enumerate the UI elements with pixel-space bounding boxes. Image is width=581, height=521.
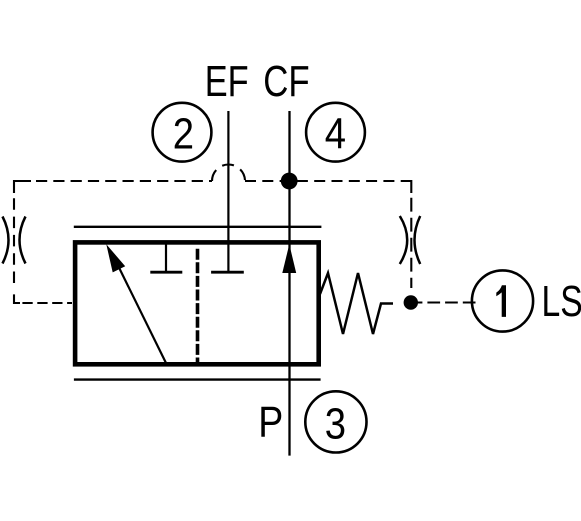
port label EF [205, 58, 249, 106]
svg-text:LS: LS [542, 278, 581, 326]
line crossing hop (dashed arc) [212, 165, 245, 182]
svg-text:4: 4 [325, 109, 346, 158]
pilot line left vertical (dashed) [13, 198, 15, 289]
orifice left [3, 217, 26, 264]
wire CF line [288, 111, 290, 456]
infinite positioning line top [74, 226, 322, 228]
infinite positioning line bottom [74, 378, 321, 380]
CF flow arrowhead [282, 244, 296, 273]
EF plug bar [211, 271, 244, 274]
svg-text:2: 2 [173, 109, 194, 158]
valve body envelope [75, 242, 319, 364]
port label CF [263, 57, 309, 106]
port label LS [542, 278, 581, 326]
pilot line bottom left corner elbow [14, 294, 20, 303]
port circle 2 [153, 103, 212, 162]
port circle 3 [305, 391, 366, 452]
port circle 4 [306, 103, 365, 162]
pilot line top (dashed) [36, 180, 212, 182]
pilot line top right corner elbow [403, 181, 412, 193]
svg-text:CF: CF [263, 57, 309, 106]
blocked port bar [150, 271, 182, 274]
orifice right [400, 216, 420, 264]
wire EF line [227, 111, 229, 271]
junction node LS [404, 295, 418, 309]
pilot line left bottom horizontal (dashed) [22, 302, 72, 304]
pilot line node to port 1 (dashed) [410, 301, 476, 303]
spool stroke arrow shaft [117, 264, 166, 364]
valve center dashed divider [196, 249, 200, 362]
pilot line right vertical (dashed) [410, 198, 412, 288]
junction node on CF [281, 173, 298, 190]
svg-text:P: P [258, 397, 283, 446]
port label P [258, 397, 283, 446]
pilot line top right (dashed) [245, 180, 403, 182]
spool stroke arrowhead [106, 244, 125, 272]
blocked port stub [165, 244, 167, 271]
pilot line top left corner elbow [14, 181, 31, 193]
spring [320, 273, 393, 334]
svg-text:3: 3 [325, 399, 346, 448]
port circle 1 [472, 270, 533, 331]
svg-text:EF: EF [205, 58, 249, 106]
